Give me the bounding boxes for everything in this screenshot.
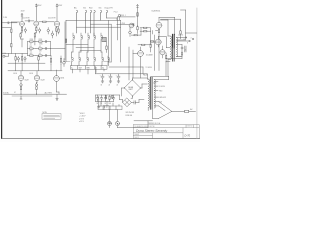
tube V4 (6CA7): [129, 23, 134, 28]
title block row line 2: [133, 132, 183, 134]
barrier strip TB2: [98, 106, 122, 110]
RC row 3 resistor R13: [39, 55, 43, 56]
OPT secondary winding: [176, 38, 177, 57]
heater bus line 1: [4, 93, 67, 95]
terminal strip: [70, 66, 107, 70]
cathode resistor R6: [55, 27, 57, 28]
svg-text:D-70: D-70: [185, 134, 191, 138]
power switch SW1: [115, 121, 119, 125]
lower cap row C11: [96, 95, 99, 102]
wire across to right: [101, 18, 121, 20]
title block divider v2: [152, 133, 154, 139]
B+ bus: [96, 67, 148, 74]
connector loop A: [77, 10, 78, 33]
socket pin hook b4: [93, 57, 95, 59]
svg-text:390: 390: [30, 51, 33, 53]
socket pin hook b2: [78, 57, 80, 59]
cap C5: [131, 24, 134, 26]
PT secondary winding: [154, 80, 155, 109]
speaker inset bracket: [103, 106, 109, 111]
bus wire lower: [2, 42, 27, 56]
svg-text:6CA7/EL34: 6CA7/EL34: [152, 10, 161, 13]
plate resistor R20a: [137, 13, 138, 17]
socket pin hook a3: [87, 33, 89, 36]
svg-text:o 74 V: o 74 V: [79, 118, 85, 120]
resistor R3 between V2 V3: [39, 21, 43, 23]
bus verticals right: [91, 21, 112, 66]
switch labels: [126, 112, 135, 117]
svg-text:20: 20: [105, 103, 107, 105]
PT top lead to GZ34: [151, 76, 169, 79]
ground psu: [98, 106, 100, 108]
labels top-left: [3, 5, 63, 55]
svg-text:+: +: [116, 75, 117, 77]
wires to heater bus: [16, 63, 61, 71]
secondary taps: [176, 38, 188, 57]
top bus wire: [8, 70, 62, 76]
PT core: [149, 77, 151, 109]
bias network R23: [144, 31, 147, 32]
svg-text:47: 47: [14, 92, 16, 94]
RC row 2 cap C3: [46, 47, 51, 49]
connector G: [118, 14, 120, 16]
svg-text:GRN: GRN: [86, 67, 89, 69]
RC row 2 resistor R10: [30, 48, 34, 49]
feedback line top: [161, 19, 181, 31]
cathode resistor V8: [36, 87, 37, 90]
bus wire y61.5: [64, 61, 108, 63]
stub down J2: [20, 96, 22, 99]
svg-text:16: 16: [183, 39, 185, 41]
V9 cathode lead: [57, 81, 60, 94]
lower cap C14: [112, 95, 115, 102]
jog wires: [72, 52, 102, 58]
grid stopper resistor R1b: [11, 29, 12, 32]
svg-text:SELEN: SELEN: [128, 87, 133, 89]
ground symbol lower: [56, 94, 58, 100]
title block frame: [133, 125, 199, 139]
connector loop E: [107, 10, 108, 18]
wire right bus: [51, 22, 66, 60]
filter cap C8: [109, 74, 112, 83]
can capacitor CC1: [102, 38, 106, 42]
wire plate bus: [2, 22, 17, 24]
wire to PT primary: [110, 121, 153, 128]
svg-text:+ 1.56 V: + 1.56 V: [79, 116, 86, 118]
svg-text:A-470: A-470: [179, 33, 184, 36]
B+ bus upper: [109, 67, 143, 74]
svg-text:C-354: C-354: [3, 17, 7, 19]
svg-text:20: 20: [101, 103, 103, 105]
bypass cap CB4: [24, 58, 26, 60]
AC line with fuse: [172, 110, 185, 112]
feedback resistor R24: [180, 31, 181, 34]
tube V9 rectifier: [54, 76, 60, 82]
bias network R22: [144, 27, 147, 28]
bypass cap CB2: [39, 29, 41, 31]
svg-text:10K: 10K: [109, 103, 112, 105]
svg-text:DWG NO: DWG NO: [187, 125, 192, 127]
dropper resistor Rm2: [106, 46, 107, 49]
cathode resistor R4: [35, 26, 37, 27]
svg-text:+: +: [100, 75, 101, 77]
tap dots: [185, 37, 186, 38]
svg-text:1/2-7199: 1/2-7199: [48, 18, 55, 20]
lower cap row C13: [104, 95, 107, 102]
socket pin hook b3: [86, 57, 88, 59]
center labels: [71, 7, 113, 70]
svg-text:8-4: 8-4: [102, 67, 104, 69]
feedback cap C6: [182, 46, 186, 52]
svg-text:.1 470K: .1 470K: [120, 23, 125, 25]
right-top labels: [114, 10, 192, 69]
border right: [196, 8, 198, 139]
svg-text:30: 30: [97, 103, 99, 105]
left bias feed wires: [151, 31, 160, 70]
cathode resistor R5: [34, 34, 35, 37]
grid wire V4: [117, 17, 135, 62]
matrix crossing wires: [66, 20, 121, 61]
lower-left labels: [3, 73, 64, 95]
output tube V5b: [155, 39, 161, 45]
cathode cap C1c: [51, 33, 53, 35]
svg-text:4: 4: [191, 37, 192, 39]
B+ feather V4: [137, 4, 139, 15]
svg-text:8: 8: [187, 42, 188, 44]
heater bus line 2: [12, 95, 52, 97]
small note above title block: [148, 122, 161, 125]
fuse holder F1: [107, 121, 111, 125]
lower resistor R18: [50, 59, 51, 63]
svg-text:20: 20: [117, 85, 119, 87]
power transformer PT1: [147, 74, 155, 111]
notes box text lines: [44, 115, 61, 118]
B+ feed V2: [35, 4, 37, 21]
bias resistors R30: [105, 96, 106, 99]
tube V7: [18, 75, 23, 80]
filter cap C7: [101, 74, 104, 83]
B+ feed V3: [56, 4, 58, 21]
title block divider v1: [182, 128, 184, 139]
cathode resistor R1: [21, 26, 23, 27]
svg-text:PC-3: PC-3: [114, 11, 118, 13]
border left scan edge: [1, 0, 2, 139]
RC row 1 cap C2: [46, 40, 51, 42]
lower resistor R16: [21, 57, 22, 61]
bias column verticals: [129, 47, 133, 80]
svg-text:B+: B+: [71, 67, 73, 69]
svg-text:RECT: RECT: [129, 89, 133, 91]
bypass cap CB3: [17, 58, 19, 60]
svg-text:EL34: EL34: [14, 73, 18, 75]
ground bus lower: [8, 62, 45, 64]
screen feed vertical: [178, 10, 197, 40]
connector loop B: [86, 10, 87, 33]
bias feed resistor R29: [104, 95, 106, 97]
resistor R mat: [65, 39, 66, 42]
socket pin hook b1: [71, 57, 73, 59]
cathode cap V8: [35, 84, 37, 86]
lower resistor R15: [15, 57, 16, 61]
title block divider v3: [186, 125, 194, 128]
svg-text:* 410 V: * 410 V: [79, 113, 85, 115]
cathode resistor R2: [20, 34, 21, 37]
border bottom: [2, 138, 200, 140]
svg-text:SW ON-OFF: SW ON-OFF: [126, 112, 135, 114]
tube V8: [34, 75, 39, 80]
filter cap C9: [117, 74, 120, 83]
svg-text:.02: .02: [39, 46, 41, 48]
svg-text:20: 20: [109, 85, 111, 87]
grid wire V4 lower: [117, 24, 129, 26]
OPT core: [172, 34, 174, 48]
svg-text:NOTE:: NOTE:: [43, 112, 48, 114]
bias cap C15: [131, 100, 144, 105]
tube V5 (6CA7): [156, 22, 162, 28]
cathode cap C1b: [47, 29, 49, 31]
socket pin hook a5: [100, 33, 102, 36]
test point TP1: [129, 31, 132, 34]
svg-text:GZ34: GZ34: [60, 77, 64, 79]
AC cable merge V: [153, 102, 172, 119]
input jack J1: [3, 55, 5, 57]
svg-text:.01: .01: [184, 50, 186, 52]
bridge rectifier SELENIUM: [125, 80, 141, 96]
PSU labels: [97, 74, 194, 111]
svg-text:47K: 47K: [39, 51, 42, 53]
svg-text:+: +: [108, 75, 109, 77]
notes box frame: [42, 114, 61, 120]
grid resistor R14: [11, 44, 12, 47]
svg-text:C-10: C-10: [3, 53, 7, 55]
notes box label: [43, 112, 48, 114]
cathode parts V5: [158, 28, 160, 29]
RC row 3 cap C4: [46, 54, 51, 56]
connector loop B2: [91, 10, 92, 33]
screen resistor R20: [137, 26, 139, 27]
RC row 3 resistor R12: [30, 55, 34, 56]
svg-text:TO GZ34: TO GZ34: [146, 67, 152, 69]
jack stem left: [63, 59, 65, 62]
resistor R26: [166, 56, 167, 59]
cathode cap V7: [20, 84, 22, 86]
RC row 1 resistor R8: [30, 41, 34, 42]
svg-text:Dyna Stereo Seventy: Dyna Stereo Seventy: [136, 129, 168, 133]
bias resistor R31: [112, 95, 113, 98]
coupling cap C1: [25, 20, 34, 22]
svg-text:470K .1: 470K .1: [121, 15, 126, 17]
socket pin hook a4: [93, 33, 95, 36]
title block row line 1: [133, 127, 199, 129]
lower cap row C12: [100, 95, 103, 102]
wires below strip: [73, 69, 105, 74]
svg-text:Output TR: Output TR: [104, 7, 113, 10]
switch wire left: [109, 110, 111, 122]
B+ feed V1: [21, 13, 23, 21]
svg-text:Grn: Grn: [99, 8, 102, 10]
grid resistor V5b: [150, 41, 153, 42]
svg-text:BLK: BLK: [159, 102, 162, 104]
PT tap leads: [154, 82, 158, 106]
connector loop C: [94, 10, 95, 36]
RC row 1 resistor R9: [39, 41, 43, 42]
socket pin hook b6: [107, 56, 109, 58]
lower resistor R19: [60, 59, 61, 63]
svg-text:Blu: Blu: [74, 8, 77, 10]
svg-text:Grn: Grn: [83, 8, 86, 10]
strip feed stubs: [101, 102, 119, 107]
lower resistor R17: [38, 57, 39, 61]
tube V3: [54, 21, 59, 26]
svg-text:GRN 6.3V: GRN 6.3V: [159, 97, 166, 99]
svg-text:1/2-7199: 1/2-7199: [22, 18, 29, 20]
svg-text:.02: .02: [39, 53, 41, 55]
svg-text:5V GZ34: 5V GZ34: [159, 86, 165, 88]
socket pin hook b5: [101, 57, 103, 59]
svg-text:CHECK: CHECK: [134, 137, 139, 139]
plate wire V5 to OPT: [159, 17, 175, 34]
OPT T1 output transformer: [161, 20, 178, 76]
switch wire right: [117, 110, 119, 122]
svg-text:30: 30: [101, 85, 103, 87]
OPT primary winding: [170, 36, 171, 59]
ground stub: [176, 56, 182, 58]
svg-text:EL34: EL34: [30, 73, 34, 75]
bias tube V6: [160, 50, 165, 55]
svg-text:.02: .02: [30, 44, 32, 46]
resistor R7: [58, 29, 59, 32]
junction dots: [20, 94, 21, 95]
feedback resistor R27: [181, 52, 182, 55]
cathode resistor V7: [20, 87, 21, 90]
bias resistor R25: [150, 44, 151, 47]
lower resistor R28: [109, 96, 110, 99]
wire stub V1 lower: [21, 33, 57, 47]
wire grid V1: [2, 22, 19, 28]
svg-text:470K: 470K: [39, 44, 43, 46]
connector loop D: [101, 10, 102, 20]
tube V1 (7199 pentode): [20, 21, 25, 26]
PT primary winding: [148, 79, 149, 108]
bypass cap CB1: [24, 29, 26, 31]
svg-text:Red: Red: [89, 8, 92, 10]
driver tube V10: [138, 51, 144, 57]
lower bus wires: [96, 95, 120, 102]
socket pin hook a2: [80, 33, 82, 36]
feedback junction: [181, 47, 183, 49]
socket pin hook a1: [72, 33, 74, 36]
title block row line 3: [133, 135, 152, 137]
bias bridge diamond: [123, 98, 132, 107]
tube V2: [34, 21, 39, 26]
interstage resistor R23b: [142, 44, 145, 45]
resistor R21: [134, 35, 137, 36]
RC row 2 resistor R11: [39, 48, 43, 49]
